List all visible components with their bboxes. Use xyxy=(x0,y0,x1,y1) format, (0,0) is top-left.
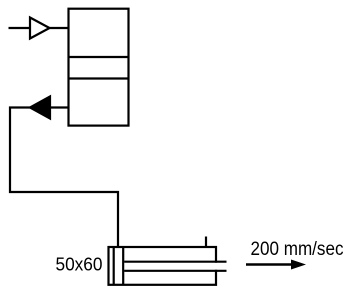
svg-text:200 mm/sec: 200 mm/sec xyxy=(251,239,344,260)
svg-text:50x60: 50x60 xyxy=(56,253,103,274)
